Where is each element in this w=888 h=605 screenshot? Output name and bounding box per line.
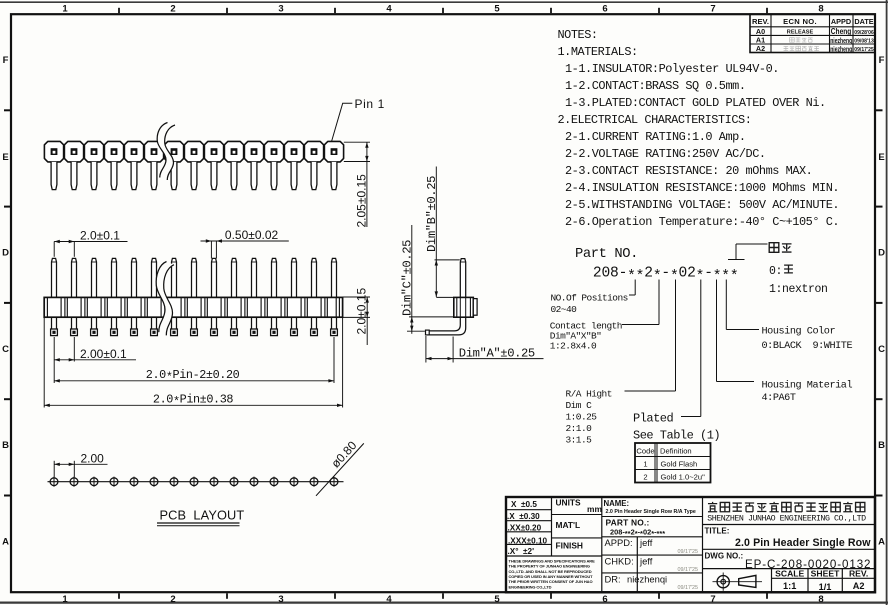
svg-text:Dim C: Dim C [566, 400, 593, 411]
front view housing body [44, 297, 342, 317]
svg-text:F: F [879, 55, 885, 66]
dimension 2.0 housing height [343, 296, 370, 298]
svg-text:4: 4 [386, 3, 392, 14]
svg-text:A: A [2, 537, 9, 548]
svg-text:09/17'25: 09/17'25 [678, 567, 699, 573]
dimension 2.05 top view right [344, 141, 370, 143]
svg-text:Part NO.: Part NO. [575, 247, 638, 262]
svg-text:09/17'25: 09/17'25 [854, 47, 874, 53]
svg-text:NOTES:: NOTES: [558, 28, 598, 42]
svg-text:.XX±0.20: .XX±0.20 [508, 524, 542, 533]
svg-text:1:0.25: 1:0.25 [566, 412, 598, 423]
svg-text:ECN NO.: ECN NO. [783, 17, 817, 26]
top view pin header pads [44, 141, 63, 162]
leader marking (CJK) [728, 244, 768, 260]
dimension 2.0*Pin-2 [333, 337, 335, 383]
pcb layout centerline [48, 481, 344, 483]
svg-text:D: D [878, 248, 885, 259]
svg-text:Housing Material: Housing Material [762, 380, 853, 392]
svg-text:1: 1 [643, 460, 647, 469]
svg-text:8: 8 [818, 594, 823, 605]
svg-text:C: C [2, 344, 9, 355]
svg-text:Plated: Plated [633, 412, 674, 426]
svg-text:REV.: REV. [752, 17, 769, 26]
label marking CJK glyphs [769, 243, 779, 253]
svg-text:APPD:: APPD: [605, 537, 633, 548]
svg-text:Pin 1: Pin 1 [355, 97, 385, 111]
side view bent pin [429, 317, 460, 331]
svg-text:1: 1 [62, 594, 68, 605]
dimension 2.0*Pin overall [43, 318, 45, 408]
svg-text:REV.: REV. [849, 569, 868, 579]
svg-text:Dim"C"±0.25: Dim"C"±0.25 [400, 240, 414, 316]
projection symbol [717, 576, 729, 588]
svg-text:3:1.5: 3:1.5 [566, 435, 593, 446]
svg-text:FINISH: FINISH [556, 541, 583, 551]
svg-text:SHENZHEN JUNHAO ENGINEERING CO: SHENZHEN JUNHAO ENGINEERING CO.,LTD [707, 514, 866, 523]
svg-text:niezhenq: niezhenq [830, 44, 852, 53]
svg-text:1-3.PLATED:CONTACT GOLD PLATED: 1-3.PLATED:CONTACT GOLD PLATED OVER Ni. [565, 96, 826, 110]
svg-text:F: F [3, 55, 9, 66]
svg-text:Dim"A"±0.25: Dim"A"±0.25 [459, 346, 535, 360]
svg-text:1:2.8x4.0: 1:2.8x4.0 [550, 341, 597, 352]
svg-text:1.MATERIALS:: 1.MATERIALS: [558, 45, 638, 59]
svg-text:09/17'25: 09/17'25 [678, 549, 699, 555]
svg-text:niezhenqi: niezhenqi [627, 574, 667, 585]
svg-text:R/A Hight: R/A Hight [566, 389, 612, 400]
svg-text:DWG NO.:: DWG NO.: [705, 551, 744, 560]
svg-text:SHEET: SHEET [811, 569, 840, 579]
svg-text:1-1.INSULATOR:Polyester UL94V-: 1-1.INSULATOR:Polyester UL94V-0. [565, 62, 779, 76]
svg-text:1:nextron: 1:nextron [769, 283, 828, 296]
svg-text:2.05±0.15: 2.05±0.15 [354, 174, 368, 228]
zone ticks bottom [118, 593, 120, 599]
svg-text:5: 5 [494, 3, 500, 14]
svg-text:2: 2 [170, 3, 175, 14]
svg-text:Housing Color: Housing Color [762, 326, 836, 338]
svg-text:3: 3 [278, 594, 283, 605]
svg-text:7: 7 [710, 3, 715, 14]
company name CJK [708, 502, 717, 512]
side view vertical pin [460, 259, 465, 298]
svg-text:DATE: DATE [854, 17, 873, 26]
svg-text:2-4.INSULATION RESISTANCE:1000: 2-4.INSULATION RESISTANCE:1000 MOhms MIN… [565, 181, 839, 195]
leader Housing Color [726, 280, 759, 330]
svg-text:2-3.CONTACT RESISTANCE: 20 mOh: 2-3.CONTACT RESISTANCE: 20 mOhms MAX. [565, 164, 812, 178]
svg-text:2.0 Pin Header Single Row: 2.0 Pin Header Single Row [735, 537, 871, 549]
svg-text:6: 6 [602, 594, 607, 605]
svg-text:1-2.CONTACT:BRASS SQ 0.5mm.: 1-2.CONTACT:BRASS SQ 0.5mm. [565, 79, 746, 93]
top view break line left [157, 123, 167, 178]
svg-text:SCALE: SCALE [775, 569, 804, 579]
svg-text:jeff: jeff [639, 537, 653, 548]
svg-text:2.ELECTRICAL CHARACTERISTICS:: 2.ELECTRICAL CHARACTERISTICS: [558, 113, 752, 127]
zone ticks left [4, 109, 10, 111]
svg-text:2:1.0: 2:1.0 [566, 423, 593, 434]
svg-text:CHKD:: CHKD: [605, 556, 634, 567]
front view lower pins with end faces [51, 317, 53, 329]
svg-text:09/08'13: 09/08'13 [854, 39, 874, 45]
svg-text:X ±0.5: X ±0.5 [511, 500, 537, 509]
svg-text:NAME:: NAME: [604, 499, 630, 508]
dimension Dim C [409, 316, 453, 318]
svg-text:E: E [878, 152, 884, 163]
svg-text:D: D [2, 248, 9, 259]
svg-text:Definition: Definition [660, 446, 692, 455]
svg-text:B: B [878, 440, 885, 451]
svg-text:6: 6 [602, 3, 607, 14]
title block grid [551, 497, 553, 556]
leader Housing Material [717, 280, 755, 382]
pin 1 leader and label [332, 103, 353, 141]
svg-text:2.00±0.1: 2.00±0.1 [80, 347, 127, 361]
front view break line right [164, 265, 174, 336]
svg-text:DR:: DR: [605, 574, 621, 585]
zone ticks right [876, 109, 883, 111]
svg-text:.XXX±0.10: .XXX±0.10 [508, 537, 548, 546]
svg-text:PART NO.:: PART NO.: [606, 518, 650, 528]
svg-text:0.50±0.02: 0.50±0.02 [225, 228, 279, 242]
zone ticks top [118, 8, 120, 13]
svg-text:09/28'06: 09/28'06 [854, 30, 874, 36]
dimension 2.00 pcb pitch [53, 461, 55, 477]
revision table [750, 14, 875, 52]
svg-text:NO.Of Positions: NO.Of Positions [551, 293, 628, 304]
svg-text:E: E [2, 152, 8, 163]
svg-text:A: A [878, 537, 885, 548]
svg-text:02~40: 02~40 [551, 304, 578, 315]
front view housing position separators [46, 297, 48, 317]
svg-text:mm: mm [587, 504, 602, 514]
svg-text:APPD: APPD [831, 17, 851, 26]
svg-text:RELEASE: RELEASE [787, 30, 814, 36]
svg-text:1:1: 1:1 [783, 581, 796, 591]
svg-text:8: 8 [818, 3, 823, 14]
hole diameter leader [316, 443, 364, 495]
svg-text:09/17'25: 09/17'25 [678, 585, 699, 591]
leader Plated [681, 280, 701, 417]
svg-text:Dim"B"±0.25: Dim"B"±0.25 [425, 176, 439, 252]
svg-text:2.00: 2.00 [81, 451, 105, 465]
plating code table [635, 443, 711, 483]
svg-text:2.0 Pin Header Single Row R/A: 2.0 Pin Header Single Row R/A Type [606, 509, 696, 515]
svg-text:0:BLACK 9:WHITE: 0:BLACK 9:WHITE [762, 341, 853, 352]
svg-text:UNITS: UNITS [556, 498, 582, 508]
svg-text:TITLE:: TITLE: [705, 526, 730, 535]
svg-text:2-5.WITHSTANDING VOLTAGE: 500V: 2-5.WITHSTANDING VOLTAGE: 500V AC/MINUTE… [565, 198, 839, 212]
side view pin tip [426, 330, 430, 335]
svg-text:1: 1 [62, 3, 68, 14]
front view break mask [156, 262, 174, 336]
svg-text:7: 7 [710, 594, 715, 605]
svg-text:See Table (1): See Table (1) [633, 429, 720, 443]
sheet outer trim line top [0, 1, 888, 3]
top view break line right [165, 125, 175, 180]
dimension 0.50 pin width [210, 241, 212, 259]
svg-text:2-6.Operation Temperature:-40°: 2-6.Operation Temperature:-40° C~+105° C… [565, 215, 839, 229]
svg-text:2-1.CURRENT RATING:1.0 Amp.: 2-1.CURRENT RATING:1.0 Amp. [565, 130, 746, 144]
svg-text:2.0±0.15: 2.0±0.15 [355, 288, 369, 335]
svg-text:2: 2 [643, 473, 647, 482]
svg-text:Gold 1.0~2u": Gold 1.0~2u" [661, 473, 706, 482]
top view pins below pads [51, 162, 57, 190]
svg-text:.X° ±2': .X° ±2' [508, 547, 535, 556]
svg-text:B: B [2, 440, 9, 451]
svg-text:5: 5 [494, 594, 500, 605]
svg-text:A2: A2 [853, 581, 865, 591]
svg-text:Code: Code [636, 446, 654, 455]
svg-text:Gold Flash: Gold Flash [661, 460, 698, 469]
pcb layout holes [50, 478, 58, 486]
dimension 2.0 pitch front view [53, 242, 55, 257]
top view break mask [157, 123, 175, 181]
svg-text:A2: A2 [756, 44, 765, 53]
dimension 2.00 lower pitch [53, 337, 55, 383]
leader NO.Of Positions [629, 280, 635, 296]
svg-text:MAT'L: MAT'L [556, 520, 581, 530]
svg-text:3: 3 [278, 3, 283, 14]
sheet outer trim line right [886, 0, 888, 605]
svg-text:jeff: jeff [639, 556, 653, 567]
leader Contact length [622, 280, 659, 325]
side view housing [454, 297, 474, 317]
side view housing right tab [473, 299, 477, 316]
sheet outer trim line bottom [0, 601, 888, 603]
dimension Dim B [435, 259, 460, 261]
svg-text:C: C [878, 344, 885, 355]
svg-text:ENGINEERING CO.,LTD: ENGINEERING CO.,LTD [509, 584, 552, 589]
dimension Dim A [425, 336, 427, 363]
title block outline [506, 497, 875, 592]
top view pad center contacts [51, 148, 58, 155]
svg-text:4:PA6T: 4:PA6T [762, 393, 796, 404]
svg-text:PCB LAYOUT: PCB LAYOUT [160, 508, 245, 523]
svg-text:1/1: 1/1 [819, 582, 832, 592]
front view upper pins [52, 258, 57, 297]
svg-text:.X ±0.30: .X ±0.30 [507, 512, 540, 521]
front view break line left [156, 262, 166, 333]
leader R/A Hight [625, 280, 676, 392]
svg-text:2-2.VOLTAGE RATING:250V AC/DC.: 2-2.VOLTAGE RATING:250V AC/DC. [565, 147, 766, 161]
svg-text:0:: 0: [769, 265, 782, 278]
svg-text:4: 4 [386, 594, 392, 605]
svg-text:2: 2 [170, 594, 175, 605]
svg-text:2.0±0.1: 2.0±0.1 [80, 228, 120, 242]
